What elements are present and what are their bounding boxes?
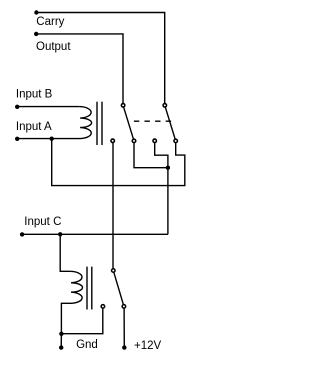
- wire T3L to ground node: [61, 309, 102, 334]
- wire Carry net: [36, 13, 164, 104]
- wire Input C tap down to coil K2 top: [60, 234, 70, 271]
- junction dot node N1: [166, 166, 170, 170]
- contact pole P2 circle: [163, 104, 167, 108]
- junction dot ground node: [59, 332, 63, 336]
- throw T3R circle: [122, 305, 126, 309]
- wire T1R to node N1: [134, 143, 168, 168]
- throw T1R circle: [132, 139, 136, 143]
- throw T2R circle: [174, 139, 178, 143]
- junction dot Input A / T2R: [50, 137, 54, 141]
- svg-text:Carry: Carry: [36, 16, 64, 28]
- contact pole P1 circle: [121, 104, 125, 108]
- wire Input A junction to throw T2R: [52, 139, 185, 186]
- contact arm P1: [124, 107, 134, 138]
- wire T2L to node N1: [155, 143, 168, 168]
- relay coil K2: [61, 271, 82, 333]
- wire T3R to +12V terminal: [123, 309, 125, 348]
- terminal dot Input A: [15, 137, 19, 141]
- svg-text:Input C: Input C: [24, 216, 61, 228]
- wire T1L down to relay K2 pole: [112, 143, 114, 268]
- wire Output net: [36, 34, 123, 103]
- terminal dot Carry: [34, 10, 38, 14]
- throw T3L circle: [101, 305, 105, 309]
- throw T1L circle: [111, 139, 115, 143]
- svg-text:Output: Output: [36, 41, 71, 53]
- svg-text:Gnd: Gnd: [76, 339, 98, 351]
- wire Input B to coil K1 top: [17, 106, 79, 108]
- svg-text:Input A: Input A: [16, 121, 52, 133]
- junction dot Input C / coil K2: [58, 232, 62, 236]
- wire ground node to Gnd terminal: [60, 334, 62, 348]
- terminal dot Input C: [20, 232, 24, 236]
- terminal dot Input B: [15, 105, 19, 109]
- terminal dot Gnd: [59, 345, 63, 349]
- relay K1 core: [96, 102, 98, 145]
- terminal dot +12V: [122, 345, 126, 349]
- terminal dot Output: [34, 32, 38, 36]
- svg-text:+12V: +12V: [134, 340, 162, 352]
- mechanical link dashed: [134, 120, 171, 122]
- contact pole P3 circle: [112, 269, 116, 273]
- svg-text:Input B: Input B: [16, 89, 53, 101]
- throw T2L circle: [153, 139, 157, 143]
- contact arm P3: [114, 273, 123, 305]
- relay coil K1: [17, 107, 91, 139]
- wire node N1 down to Input C: [167, 168, 169, 235]
- wire Input C: [22, 233, 168, 235]
- contact arm P2: [165, 107, 175, 138]
- relay K2 core: [86, 267, 88, 310]
